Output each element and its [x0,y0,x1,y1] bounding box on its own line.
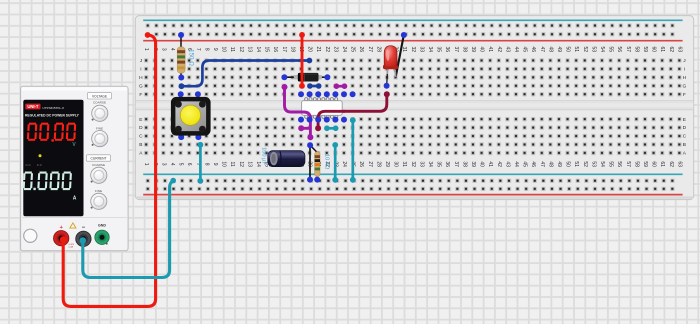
svg-text:60: 60 [651,161,657,167]
wire: top rail to row G col19 (red jumper) [301,35,304,86]
svg-text:56: 56 [616,47,622,53]
svg-text:F: F [139,92,142,98]
svg-text:10: 10 [221,161,227,167]
svg-text:FINE: FINE [96,127,103,131]
svg-text:4: 4 [169,163,175,166]
svg-text:11: 11 [229,161,235,166]
wire: row G col5 to row J col20 (blue) [182,61,310,87]
svg-text:61: 61 [659,161,665,167]
breadboard [135,16,693,200]
purple jumper G23-G24 [336,85,344,88]
svg-text:30: 30 [393,161,399,167]
svg-text:C.C: C.C [26,163,32,167]
svg-text:54: 54 [599,47,605,53]
svg-text:10: 10 [221,47,227,53]
svg-text:57: 57 [625,161,631,167]
svg-text:16: 16 [272,47,278,53]
svg-text:53: 53 [590,161,596,167]
PS1 current coarse knob [87,155,111,161]
svg-text:24: 24 [341,161,347,167]
svg-text:A: A [73,196,77,202]
top negative rail line [143,19,682,21]
svg-text:25: 25 [350,47,356,53]
svg-text:40: 40 [479,47,485,53]
svg-text:D: D [139,125,143,131]
svg-text:FINE: FINE [95,189,102,193]
wire: PSU - terminal to bottom negative rail (cyan) [83,181,173,278]
svg-text:C: C [139,134,143,140]
svg-text:36: 36 [444,161,450,167]
node: purple wire endpoints [282,84,288,90]
svg-text:6: 6 [186,163,192,166]
svg-text:D: D [683,125,687,131]
svg-text:H: H [683,75,687,81]
svg-text:60: 60 [651,47,657,53]
svg-text:−: − [82,225,86,231]
svg-text:100 µF: 100 µF [260,147,266,165]
svg-text:26: 26 [358,47,364,53]
svg-text:53: 53 [590,47,596,53]
svg-text:26: 26 [358,161,364,167]
svg-text:35: 35 [436,47,442,53]
wire: blue jumper row G col20-col21 [310,85,319,88]
bottom negative rail line [143,173,682,175]
PS1 power button [24,229,37,242]
svg-text:44: 44 [513,161,519,167]
LED D2 (red) [383,46,398,89]
svg-text:46: 46 [530,161,536,167]
svg-text:4: 4 [169,48,175,51]
wire: purple branch D19 [301,127,310,130]
svg-text:0-3A: 0-3A [69,246,74,249]
svg-text:62: 62 [668,161,674,167]
svg-text:150 Ω: 150 Ω [187,49,194,66]
PS1 current readout 0.000 A [23,172,72,191]
IC U1 (DIP timer) [302,98,343,119]
svg-text:58: 58 [633,47,639,53]
svg-text:47: 47 [539,161,545,167]
svg-text:56: 56 [616,161,622,167]
svg-text:B: B [683,142,686,148]
pushbutton S1 [171,91,211,140]
svg-text:7: 7 [195,48,201,51]
svg-text:28: 28 [375,161,381,167]
svg-text:E: E [683,117,686,123]
svg-text:31: 31 [401,161,407,167]
svg-text:G: G [683,83,687,89]
svg-text:32: 32 [410,47,416,53]
svg-text:H: H [139,75,143,81]
power supply PS1 (UNI-T UTP3315TFL) [21,86,129,251]
wire: maroon D21 to F29 [318,94,387,128]
svg-text:8: 8 [203,163,209,166]
svg-text:42: 42 [496,47,502,53]
svg-text:14: 14 [255,47,261,53]
svg-text:42: 42 [496,161,502,167]
PS1 warning triangle [70,223,76,228]
svg-text:12: 12 [238,161,244,167]
svg-text:B: B [139,142,142,148]
svg-text:11: 11 [229,47,235,52]
resistor R2 10k [307,142,329,182]
svg-text:24: 24 [341,47,347,53]
svg-text:18: 18 [289,47,295,53]
svg-text:F: F [683,92,686,98]
svg-text:1: 1 [143,48,149,51]
svg-text:45: 45 [522,47,528,53]
svg-text:63: 63 [676,47,682,53]
svg-text:COARSE: COARSE [93,101,106,105]
svg-text:GND: GND [98,223,106,227]
svg-text:51: 51 [573,161,579,167]
svg-text:I: I [140,67,141,73]
svg-text:33: 33 [418,47,424,53]
IC U1 pin nodes [298,91,356,122]
svg-text:52: 52 [582,161,588,167]
wire: PSU + terminal to top positive rail (red) [63,35,155,306]
svg-text:22: 22 [324,47,330,53]
svg-text:C.V: C.V [37,163,42,167]
svg-text:50: 50 [565,47,571,53]
svg-text:49: 49 [556,161,562,167]
node: blue wire endpoints [179,83,185,89]
diode D1 [281,73,330,82]
bottom positive rail line [143,194,682,196]
svg-text:55: 55 [608,47,614,53]
wire: black LED lead to top rail [396,35,404,77]
svg-text:27: 27 [367,47,373,53]
resistor R1 150 ohm [177,32,194,81]
svg-text:61: 61 [659,47,665,53]
svg-text:15: 15 [264,47,270,53]
svg-text:36: 36 [444,47,450,53]
svg-text:40: 40 [479,161,485,167]
svg-text:21: 21 [315,47,321,53]
svg-text:57: 57 [625,47,631,53]
svg-text:3: 3 [160,163,166,166]
svg-text:VOLTAGE: VOLTAGE [92,95,108,99]
svg-text:10 kΩ: 10 kΩ [323,154,329,170]
svg-text:35: 35 [436,161,442,167]
svg-text:46: 46 [530,47,536,53]
svg-text:COARSE: COARSE [92,163,105,167]
svg-text:32: 32 [410,161,416,167]
wire: cyan jumper E25 to bottom rail [351,120,354,180]
svg-text:13: 13 [246,47,252,53]
svg-text:41: 41 [487,161,493,167]
svg-text:59: 59 [642,161,648,167]
svg-text:38: 38 [461,161,467,167]
svg-text:20: 20 [307,47,313,53]
svg-text:G: G [139,83,143,89]
svg-text:37: 37 [453,47,459,53]
PS1 voltage readout 00.00 V [27,123,76,142]
svg-text:63: 63 [676,161,682,167]
svg-text:47: 47 [539,47,545,53]
PS1 display panel [23,100,83,217]
svg-text:48: 48 [547,161,553,167]
svg-text:55: 55 [608,161,614,167]
wire: purple G17 to C20 [285,87,311,137]
wire: cyan jumper B7 to bottom rail [199,145,202,181]
svg-text:I: I [684,67,685,73]
svg-text:48: 48 [547,47,553,53]
capacitor C1 100uF [260,146,313,183]
svg-text:45: 45 [522,161,528,167]
svg-text:51: 51 [573,47,579,53]
svg-text:49: 49 [556,47,562,53]
svg-text:34: 34 [427,161,433,167]
svg-text:UNI-T: UNI-T [27,104,39,109]
svg-text:E: E [139,117,142,123]
top positive rail line [143,40,682,42]
svg-text:+: + [60,225,63,231]
svg-text:39: 39 [470,161,476,167]
svg-text:37: 37 [453,161,459,167]
svg-text:12: 12 [238,47,244,53]
svg-text:34: 34 [427,47,433,53]
svg-text:38: 38 [461,47,467,53]
svg-text:3: 3 [160,48,166,51]
svg-text:1: 1 [143,163,149,166]
svg-text:5: 5 [178,163,184,166]
svg-text:23: 23 [332,47,338,53]
svg-text:54: 54 [599,161,605,167]
wire: cyan jumper B23 to bottom rail [334,145,337,180]
svg-text:39: 39 [470,47,476,53]
svg-text:9: 9 [212,48,218,51]
svg-text:41: 41 [487,47,493,53]
PS1 voltage coarse knob [88,93,112,99]
wire: cyan jumper D22-D23 [327,127,336,130]
svg-text:50: 50 [565,161,571,167]
svg-text:13: 13 [246,161,252,167]
svg-text:27: 27 [367,161,373,167]
svg-text:33: 33 [418,161,424,167]
svg-text:CURRENT: CURRENT [90,157,106,161]
svg-text:43: 43 [504,161,510,167]
node: maroon wire endpoints [315,125,321,131]
svg-text:REGULATED DC POWER SUPPLY: REGULATED DC POWER SUPPLY [25,113,80,117]
svg-text:9: 9 [212,163,218,166]
svg-text:58: 58 [633,161,639,167]
PS1 UNI-T logo [25,104,40,110]
svg-text:28: 28 [375,47,381,53]
svg-text:14: 14 [255,161,261,167]
svg-text:29: 29 [384,161,390,167]
svg-text:44: 44 [513,47,519,53]
svg-text:59: 59 [642,47,648,53]
svg-text:43: 43 [504,47,510,53]
svg-text:62: 62 [668,47,674,53]
svg-text:52: 52 [582,47,588,53]
svg-text:17: 17 [281,47,287,53]
svg-text:C: C [683,134,687,140]
svg-text:UTP3315TFL-II: UTP3315TFL-II [43,106,64,110]
svg-text:8: 8 [203,48,209,51]
